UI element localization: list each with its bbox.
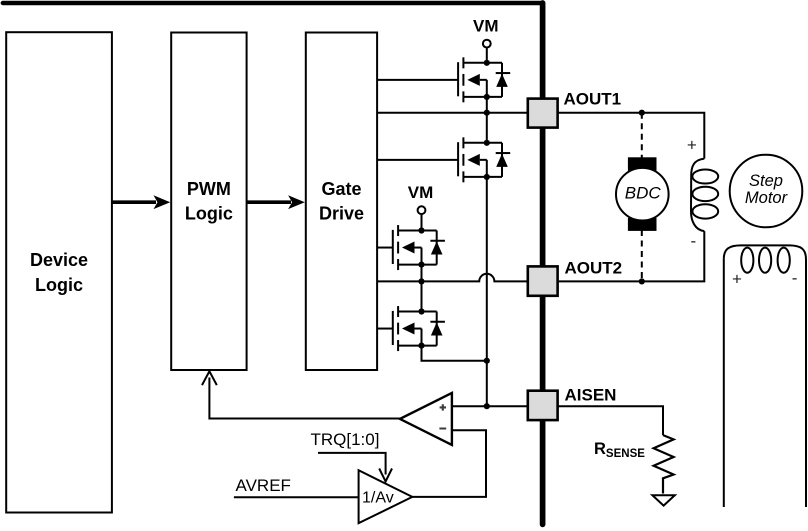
block Device Logic xyxy=(6,32,112,512)
svg-text:Drive: Drive xyxy=(319,204,364,224)
transistor Q1 (high-side A) xyxy=(377,57,510,102)
svg-text:BDC: BDC xyxy=(625,184,662,203)
wire AOUT2 net with hop over sense line xyxy=(377,274,528,282)
svg-text:Motor: Motor xyxy=(745,189,789,207)
svg-text:+: + xyxy=(732,269,742,288)
wire sense line (Q2/Q4 sources down to AISEN) xyxy=(486,177,488,406)
svg-text:Step: Step xyxy=(749,172,783,190)
block Gate Drive xyxy=(306,33,377,371)
node AOUT1 junction xyxy=(484,110,490,116)
svg-text:Device: Device xyxy=(30,250,88,270)
svg-text:AVREF: AVREF xyxy=(236,476,291,495)
block PWM Logic xyxy=(171,33,246,371)
op-amp U1 current sense comparator xyxy=(400,393,452,445)
pad AOUT2 xyxy=(528,259,622,296)
wire Q4 source to sense line xyxy=(422,346,487,361)
svg-text:VM: VM xyxy=(408,183,434,202)
arrow into PWM Logic bottom xyxy=(202,371,217,385)
inductor winding B (second step motor phase) xyxy=(724,245,806,507)
transistor Q3 (high-side B) xyxy=(377,225,445,270)
wire dashed BDC option top xyxy=(641,113,643,158)
svg-text:-: - xyxy=(690,231,696,250)
svg-text:PWM: PWM xyxy=(187,179,231,199)
svg-text:-: - xyxy=(792,269,798,288)
node BDC bottom tap xyxy=(639,278,645,284)
device boundary right edge xyxy=(540,3,546,524)
wire comparator output to PWM Logic xyxy=(209,378,400,419)
svg-text:Logic: Logic xyxy=(35,275,83,295)
svg-text:1/Av: 1/Av xyxy=(362,489,394,506)
ground xyxy=(652,495,674,505)
svg-text:Gate: Gate xyxy=(321,179,361,199)
power VM (half-bridge A) xyxy=(473,17,499,63)
svg-text:TRQ[1:0]: TRQ[1:0] xyxy=(311,430,380,449)
svg-text:RSENSE: RSENSE xyxy=(594,440,645,460)
power VM (half-bridge B) xyxy=(408,183,434,231)
svg-text:AOUT2: AOUT2 xyxy=(565,259,623,278)
motor Step Motor xyxy=(730,155,803,228)
wire comparator minus input from 1/Av xyxy=(413,430,487,497)
pad AISEN xyxy=(528,385,617,420)
svg-text:+: + xyxy=(687,135,697,154)
inductor winding A (step motor phase) xyxy=(691,159,718,232)
svg-text:Logic: Logic xyxy=(185,204,233,224)
node AOUT2 junction xyxy=(418,278,424,284)
wire AVREF input xyxy=(234,496,359,498)
wire Q1 source to Q2 drain xyxy=(486,97,488,143)
svg-text:VM: VM xyxy=(473,17,499,36)
wire Q3 source to Q4 drain xyxy=(421,265,423,312)
op-amp U2 1/Av reference scaler xyxy=(359,470,413,523)
arrow Device Logic to PWM Logic xyxy=(112,195,170,209)
wire AISEN pad to Rsense xyxy=(558,406,663,435)
wire dashed BDC option bottom xyxy=(641,230,643,281)
pad AOUT1 xyxy=(528,90,621,128)
wire AOUT1 net (gate drive to pad) xyxy=(377,112,528,114)
transistor Q4 (low-side B) xyxy=(377,306,445,351)
arrow TRQ into 1/Av xyxy=(379,469,392,482)
svg-text:AISEN: AISEN xyxy=(565,385,617,404)
node sense line joins AISEN xyxy=(484,403,490,409)
svg-text:AOUT1: AOUT1 xyxy=(564,90,622,109)
device boundary top edge xyxy=(3,1,543,5)
resistor RSENSE xyxy=(594,435,674,493)
wire AISEN net (comparator to pad) xyxy=(452,405,528,407)
node Q4 source joins sense line xyxy=(484,358,490,364)
transistor Q2 (low-side A) xyxy=(377,137,510,182)
wire TRQ[1:0] into 1/Av xyxy=(318,453,386,475)
wire AOUT1 pad to motor winding xyxy=(558,113,704,159)
wire AOUT2 pad to motor winding xyxy=(558,231,704,281)
motor BDC xyxy=(616,157,669,231)
node BDC top tap xyxy=(639,110,645,116)
arrow PWM Logic to Gate Drive xyxy=(247,195,305,209)
